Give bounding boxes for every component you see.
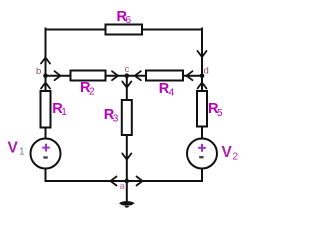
- arrow down below R3: [122, 154, 131, 160]
- junction dot b: [43, 73, 48, 78]
- resistor R1: [41, 91, 51, 128]
- resistor R6: [106, 25, 143, 35]
- wire right vertical below V2: [201, 169, 203, 182]
- svg-text:3: 3: [113, 113, 119, 124]
- svg-text:a: a: [120, 181, 126, 192]
- wire ground stem: [126, 181, 128, 201]
- svg-text:2: 2: [233, 151, 239, 162]
- junction dot c: [125, 73, 130, 78]
- arrow up above node b: [41, 58, 50, 64]
- minus sign V2: [199, 156, 203, 158]
- junction dot d: [200, 73, 205, 78]
- arrow right on bottom wire right of a: [137, 177, 143, 186]
- wire right vertical between R5 and V2: [201, 127, 203, 139]
- arrow right b to R2: [55, 71, 61, 80]
- arrow left on bottom wire left of a: [111, 177, 117, 186]
- svg-text:1: 1: [19, 147, 25, 158]
- arrow up below node d: [198, 83, 207, 89]
- arrow down above node d: [198, 51, 207, 57]
- svg-text:2: 2: [89, 87, 95, 98]
- wire middle horizontal b to R2: [46, 75, 71, 77]
- wire left vertical below V1: [45, 169, 47, 182]
- wire top left horizontal: [46, 29, 106, 31]
- svg-text:b: b: [36, 66, 41, 77]
- svg-text:1: 1: [61, 107, 67, 118]
- resistor R5: [197, 91, 207, 127]
- voltage source V2: [187, 139, 217, 169]
- wire middle horizontal R2 to c: [106, 75, 127, 77]
- arrow down below node c: [122, 82, 131, 88]
- wire left vertical upper: [45, 29, 47, 92]
- svg-text:5: 5: [217, 108, 223, 119]
- plus sign V1: [42, 144, 50, 152]
- wire middle vertical R3 to bottom: [126, 135, 128, 181]
- svg-text:6: 6: [126, 15, 132, 26]
- svg-text:V: V: [8, 139, 19, 156]
- arrow right R2 to c: [112, 71, 118, 80]
- svg-text:c: c: [125, 64, 130, 75]
- wire middle horizontal c to R4: [127, 75, 146, 77]
- wire right vertical upper: [201, 29, 203, 92]
- wire middle vertical c to R3: [126, 76, 128, 100]
- minus sign V1: [43, 156, 47, 158]
- arrow left R4 to d: [187, 71, 193, 80]
- svg-text:V: V: [222, 144, 233, 161]
- plus sign V2: [198, 144, 206, 152]
- arrow up below node b: [41, 83, 50, 89]
- arrow left c to R4: [135, 71, 141, 80]
- wire bottom horizontal: [46, 180, 203, 182]
- svg-text:4: 4: [169, 87, 175, 98]
- resistor R3: [122, 100, 132, 135]
- ground: [119, 201, 135, 208]
- wire top right horizontal: [142, 29, 202, 31]
- voltage source V1: [31, 139, 61, 169]
- svg-text:d: d: [204, 66, 209, 77]
- junction dot a: [125, 179, 130, 184]
- wire middle horizontal R4 to d: [183, 75, 202, 77]
- resistor R4: [146, 71, 183, 81]
- resistor R2: [71, 71, 106, 81]
- wire left vertical between R1 and V1: [45, 128, 47, 139]
